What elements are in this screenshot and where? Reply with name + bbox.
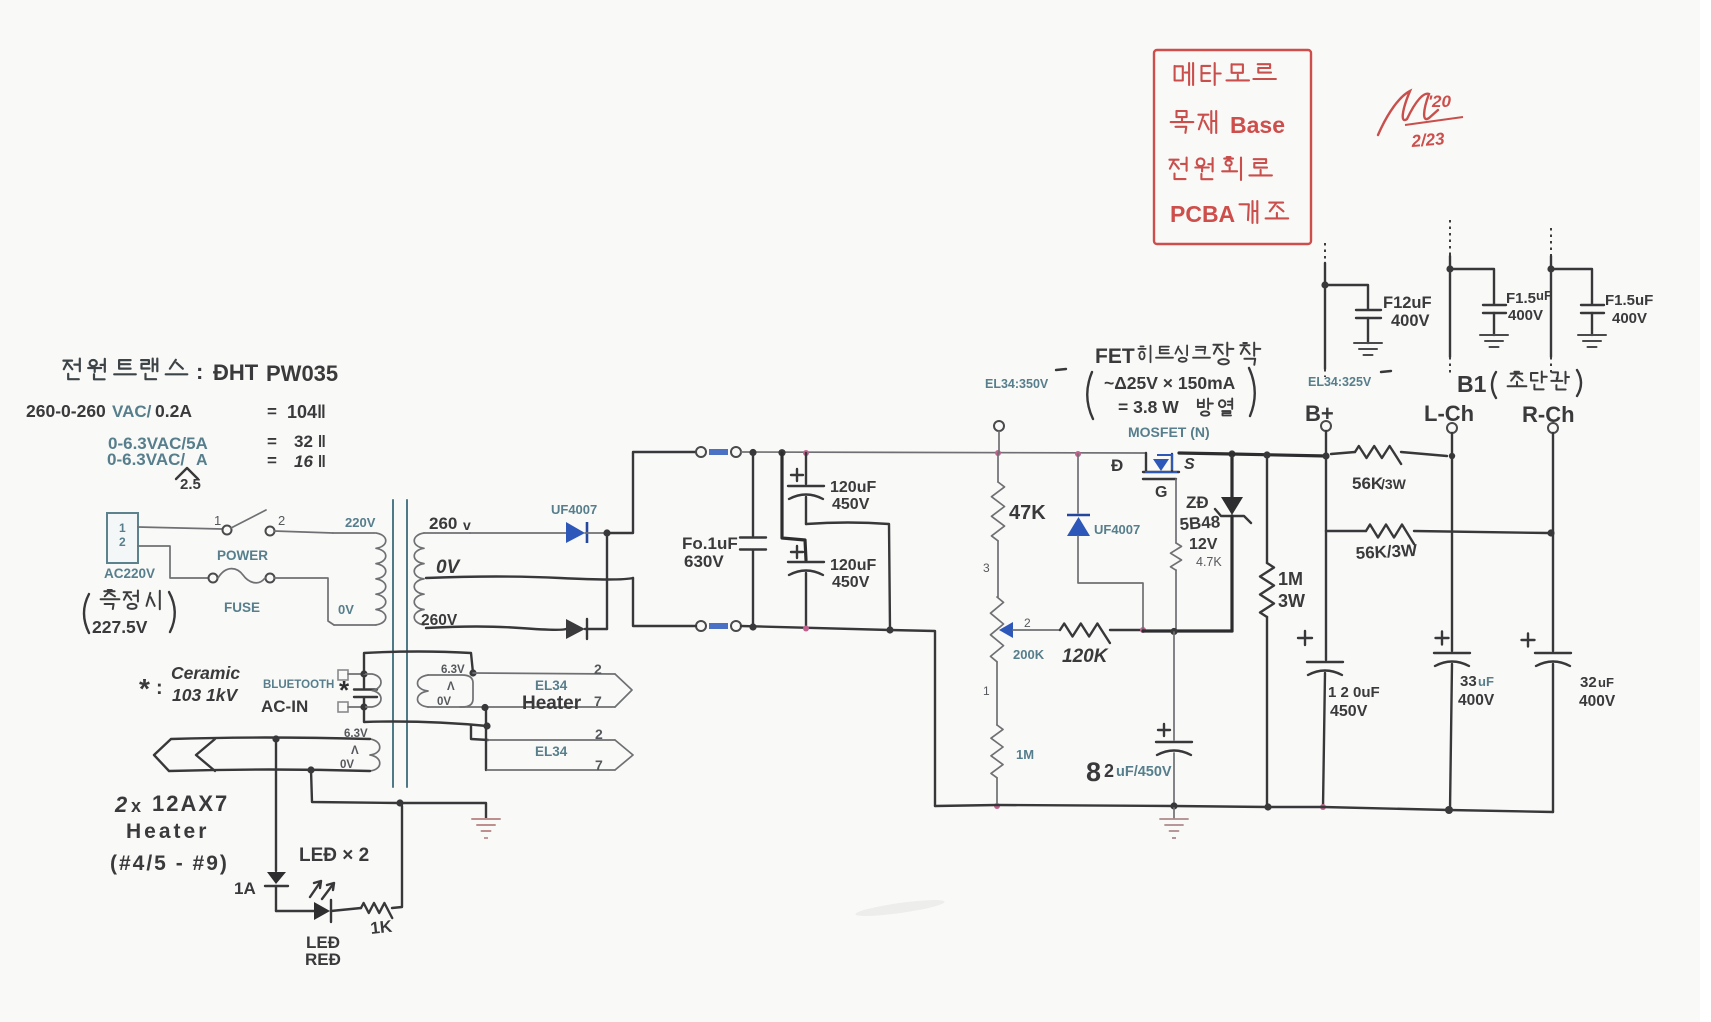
connector top (B+ link) — [696, 447, 706, 457]
svg-text:220V: 220V — [345, 515, 376, 530]
svg-text:1K: 1K — [369, 917, 393, 938]
heater winding 6.3V (12AX7) — [370, 739, 380, 771]
wire top bus connector to MOSFET — [741, 452, 1146, 453]
svg-text:1: 1 — [983, 684, 990, 698]
resistor R6 56K/3W (to L-Ch) — [1331, 452, 1355, 454]
svg-text:2/23: 2/23 — [1410, 129, 1446, 151]
L-Ch rail riser (dotted continuation) — [1449, 220, 1451, 256]
note delta 25V x 150mA — [1087, 372, 1093, 419]
12AX7 heater arrow (double chevron) — [154, 738, 370, 772]
wire bluetooth bottom loop to 0V — [364, 707, 487, 726]
svg-text:4.7K: 4.7K — [1196, 555, 1222, 569]
capacitor C4 120uF 450V — [1325, 531, 1327, 660]
svg-text:16 ‖: 16 ‖ — [294, 452, 326, 471]
svg-text:F1.5: F1.5 — [1506, 290, 1536, 307]
svg-text:=: = — [267, 432, 277, 451]
junction F1.5uF tap R — [1547, 265, 1554, 272]
ground symbol C9 — [1578, 335, 1606, 347]
connector bottom (0V link) — [696, 621, 706, 631]
wire rectifier node to top connector — [607, 452, 696, 533]
red annotation box — [1154, 50, 1311, 244]
red note line 1 (메타모르) — [1175, 63, 1276, 85]
diode D3 UF4007 (gate clamp, blue) — [1077, 454, 1079, 513]
junction bottom bus x753 — [749, 623, 756, 630]
svg-text:EL34: EL34 — [535, 744, 568, 759]
svg-text:120uF: 120uF — [830, 557, 876, 574]
junction top bus x998 (pink) — [995, 450, 1001, 456]
wire B+ down to lower 56K — [1325, 456, 1327, 531]
svg-text:227.5V: 227.5V — [92, 617, 148, 637]
capacitor ceramic 103 (across bluetooth winding) — [363, 674, 365, 688]
svg-text:x: x — [131, 796, 141, 816]
red note line 2 (목재 Base) — [1171, 111, 1217, 133]
svg-text:*: * — [339, 675, 350, 705]
svg-text:F12uF: F12uF — [1383, 294, 1432, 312]
junction heater arrow bottom — [307, 766, 314, 773]
junction bus 1M3W bottom — [1264, 803, 1271, 810]
svg-text:S: S — [1184, 456, 1195, 473]
svg-text:450V: 450V — [832, 496, 870, 513]
svg-text::: : — [196, 359, 203, 384]
wire 0V to EL34 pin7 — [460, 706, 615, 708]
wire 6.3V to EL34 pin2 — [473, 673, 615, 674]
svg-text:2: 2 — [1104, 761, 1114, 781]
svg-text:FET: FET — [1095, 345, 1135, 368]
svg-text:3W: 3W — [1278, 591, 1305, 611]
svg-text:104‖: 104‖ — [287, 402, 326, 422]
svg-text:120K: 120K — [1062, 646, 1109, 667]
wire J1 pin2 to fuse — [138, 546, 208, 578]
bluetooth pickup winding — [364, 674, 381, 707]
junction B+ node — [1322, 452, 1329, 459]
red note line 3 (전원회로) — [1169, 157, 1272, 180]
junction loop node — [483, 722, 490, 729]
junction L-Ch node — [1449, 453, 1455, 459]
svg-text:UF4007: UF4007 — [1094, 522, 1140, 537]
svg-text:56K/3W: 56K/3W — [1355, 541, 1418, 563]
wire 0V to bottom connector — [633, 578, 696, 626]
svg-text:32: 32 — [1580, 674, 1597, 691]
svg-text:= 3.8 W: = 3.8 W — [1118, 397, 1179, 417]
svg-text:AC220V: AC220V — [104, 566, 155, 581]
svg-text:ĐHT: ĐHT — [213, 360, 259, 385]
svg-text:400V: 400V — [1391, 312, 1430, 330]
ground symbol heater (salmon) — [472, 819, 500, 831]
svg-text:EL34:350V: EL34:350V — [985, 377, 1049, 391]
svg-text:REĐ: REĐ — [305, 950, 341, 969]
svg-text:400V: 400V — [1458, 692, 1495, 709]
svg-text:G: G — [1155, 484, 1167, 501]
junction bus 33uF bottom — [1445, 806, 1453, 814]
svg-text:1M: 1M — [1278, 569, 1303, 589]
svg-text:LEĐ × 2: LEĐ × 2 — [299, 845, 369, 866]
svg-text:400V: 400V — [1612, 310, 1647, 327]
capacitor C7 F12uF 400V film — [1325, 285, 1368, 309]
wire heater 0V to ground rail — [311, 770, 399, 803]
svg-text:56K: 56K — [1352, 474, 1384, 493]
junction top bus x806 (pink) — [803, 450, 809, 456]
svg-text::: : — [156, 677, 163, 699]
wire fuse to primary 0V — [274, 578, 334, 625]
MOSFET Q1 (N-channel pass) — [1145, 453, 1147, 471]
ground symbol main (reddish) — [1173, 806, 1175, 818]
svg-text:2: 2 — [278, 513, 285, 528]
capacitor C9 F1.5uF 400V film — [1551, 269, 1592, 304]
junction 1M3W top — [1263, 451, 1270, 458]
svg-text:Heater: Heater — [522, 693, 582, 714]
junction bottom bus x890 — [886, 626, 893, 633]
svg-text:12AX7: 12AX7 — [152, 791, 229, 816]
junction top bus x782 — [778, 449, 785, 456]
junction bottom bus x806 (pink) — [803, 626, 809, 632]
svg-text:0V: 0V — [436, 557, 461, 578]
capacitor C3 82uF/450V — [1173, 632, 1175, 740]
transformer core — [392, 500, 394, 787]
LED light arrows — [310, 881, 334, 899]
svg-text:260-0-260: 260-0-260 — [26, 401, 106, 421]
svg-text:v: v — [463, 517, 471, 533]
svg-text:EL34: EL34 — [535, 678, 568, 693]
svg-text:Fo.1uF: Fo.1uF — [682, 534, 738, 553]
LED red indicator — [314, 902, 330, 920]
junction top bus x1078 (pink) — [1075, 451, 1081, 457]
svg-text:0V: 0V — [437, 696, 451, 708]
wire bluetooth top loop to 6.3V — [364, 652, 473, 674]
bluetooth AC-IN pads — [338, 670, 348, 680]
diode D1 UF4007 (blue) — [566, 522, 585, 543]
svg-text:7: 7 — [595, 757, 603, 773]
capacitor C1 120uF 450V (upper of series pair) — [805, 453, 807, 484]
svg-text:2: 2 — [114, 792, 128, 817]
heater winding 6.3V (EL34) — [418, 675, 429, 707]
junction R-Ch node — [1547, 529, 1554, 536]
red signature scribble — [1378, 91, 1438, 135]
fuse F1 — [209, 574, 218, 583]
wire L-Ch down to 33uF — [1451, 456, 1453, 651]
svg-text:630V: 630V — [684, 552, 724, 571]
svg-text:(#4/5 - #9): (#4/5 - #9) — [110, 852, 229, 875]
svg-text:2: 2 — [1024, 616, 1031, 630]
svg-text:2: 2 — [594, 661, 602, 677]
svg-text:POWER: POWER — [217, 548, 268, 563]
B+ rail riser (dotted continuation) — [1324, 243, 1326, 263]
resistor R2 1M (divider) — [996, 662, 998, 725]
svg-text:400V: 400V — [1579, 693, 1616, 710]
svg-text:0.2A: 0.2A — [155, 401, 192, 421]
svg-text:0-6.3VAC/: 0-6.3VAC/ — [107, 450, 185, 469]
svg-text:/3W: /3W — [1381, 476, 1407, 492]
wire ground rail to ground symbol — [400, 803, 486, 818]
svg-text:2: 2 — [119, 535, 126, 549]
svg-text:8: 8 — [1086, 757, 1101, 787]
transformer spec title (전원트랜스 : DHT PW035) — [63, 359, 187, 380]
potentiometer VR1 200K — [991, 597, 1004, 662]
svg-text:BLUETOOTH: BLUETOOTH — [263, 679, 334, 691]
resistor R1 47K — [997, 453, 999, 482]
svg-text:A: A — [196, 452, 208, 469]
svg-text:3: 3 — [983, 561, 990, 575]
capacitor C5 33uF 400V — [1436, 632, 1449, 645]
diode D2 (lower rectifier) — [566, 619, 585, 639]
junction 0V pin7 — [481, 704, 488, 711]
zener ZD 5B48 12V — [1230, 454, 1233, 497]
R-Ch rail riser (dotted continuation) — [1550, 228, 1552, 256]
svg-text:0V: 0V — [338, 602, 354, 617]
svg-text:12V: 12V — [1189, 536, 1218, 553]
wire D2 cathode up to node — [606, 533, 608, 629]
note measured 227.5V (측정시 227.5V) — [84, 594, 89, 633]
svg-text:*: * — [139, 673, 150, 704]
wire centre tap 0V — [426, 577, 633, 580]
svg-text:2: 2 — [595, 726, 603, 742]
paper smudge — [855, 897, 946, 919]
wire switch to primary 220V — [274, 531, 333, 533]
wire drop to second flag — [485, 708, 487, 770]
svg-text:FUSE: FUSE — [224, 600, 260, 615]
svg-text:450V: 450V — [1330, 703, 1368, 720]
svg-text:Đ: Đ — [1111, 456, 1123, 475]
switch S1 POWER — [223, 526, 232, 535]
wire gate node to zener (thick) — [1143, 629, 1232, 632]
wire HV bottom to diode D2 — [426, 627, 566, 630]
EL34 heater flag 1 — [615, 674, 632, 707]
svg-text:F1.5uF: F1.5uF — [1605, 292, 1653, 309]
wire 6.3V down to 1A diode — [275, 739, 277, 871]
wire bottom bus connector to corner — [741, 626, 935, 806]
svg-text:B1: B1 — [1457, 371, 1487, 397]
AC input connector J1 — [107, 513, 138, 563]
svg-text:7: 7 — [594, 693, 602, 709]
svg-text:200K: 200K — [1013, 647, 1045, 662]
svg-text:Heater: Heater — [126, 820, 209, 843]
svg-text:Λ: Λ — [351, 745, 359, 757]
resistor R5 1M 3W — [1266, 455, 1268, 563]
resistor R7 56K/3W (to R-Ch) — [1326, 530, 1366, 532]
junction bluetooth top — [360, 670, 367, 677]
svg-text:UF4007: UF4007 — [551, 502, 597, 517]
svg-text:120uF: 120uF — [830, 479, 876, 496]
junction bluetooth bottom — [360, 703, 367, 710]
resistor R4 4.7K (gate) — [1175, 479, 1177, 543]
junction 6.3V top — [469, 669, 476, 676]
junction 4.7K bottom — [1170, 628, 1177, 635]
EL34 heater flag 2 — [488, 739, 615, 741]
junction heater arrow top — [272, 735, 279, 742]
svg-text:R-Ch: R-Ch — [1522, 402, 1575, 427]
svg-text:32 ‖: 32 ‖ — [294, 432, 326, 451]
svg-text:~Δ25V × 150mA: ~Δ25V × 150mA — [1104, 373, 1236, 393]
wire R-Ch down to 32uF — [1552, 533, 1554, 651]
capacitor F0.1uF 630V film — [752, 452, 754, 536]
svg-text:uF/450V: uF/450V — [1116, 764, 1172, 780]
transformer T1 HV secondary winding — [414, 533, 424, 625]
svg-text:260: 260 — [429, 514, 457, 533]
resistor R3 120K — [1060, 624, 1110, 644]
resistor R8 1K — [331, 908, 361, 911]
svg-text:ZĐ: ZĐ — [1186, 493, 1209, 512]
junction C4 bottom (pink) — [1320, 804, 1326, 810]
svg-text:103 1kV: 103 1kV — [172, 685, 239, 705]
svg-text:PW035: PW035 — [266, 361, 338, 386]
capacitor C8 F1.5uF 400V film — [1450, 269, 1494, 304]
diode 1A — [267, 872, 286, 884]
svg-text:L-Ch: L-Ch — [1424, 401, 1474, 426]
wire HV top to diode D1 — [470, 532, 566, 534]
junction 82uF bottom — [1170, 802, 1177, 809]
wire diode to LED — [276, 910, 314, 912]
junction rectifier output — [603, 529, 610, 536]
junction 1M bottom (pink) — [994, 803, 1000, 809]
svg-text:Λ: Λ — [447, 681, 455, 693]
junction F1.5uF tap L — [1446, 265, 1453, 272]
svg-text:VAC/: VAC/ — [112, 402, 152, 421]
svg-text:1M: 1M — [1016, 747, 1034, 762]
svg-text:uF: uF — [1598, 675, 1614, 690]
junction top bus x753 — [749, 449, 756, 456]
ground symbol C7 — [1354, 343, 1382, 355]
junction F12uF tap — [1321, 281, 1328, 288]
ground symbol C8 — [1480, 335, 1508, 347]
junction gate node (pink) — [1140, 627, 1146, 633]
wire J1 pin1 to switch — [138, 527, 222, 529]
svg-text:AC-IN: AC-IN — [261, 697, 308, 716]
svg-text:=: = — [267, 402, 277, 421]
svg-text:uF: uF — [1478, 674, 1494, 689]
capacitor C2 120uF 450V (lower of series pair) — [782, 453, 806, 560]
svg-text:1A: 1A — [234, 879, 256, 898]
svg-text:PCBA: PCBA — [1170, 201, 1235, 227]
svg-text:MOSFET (N): MOSFET (N) — [1128, 424, 1210, 440]
svg-text:33: 33 — [1460, 673, 1477, 690]
svg-text:1: 1 — [214, 513, 221, 528]
svg-text:Ceramic: Ceramic — [171, 663, 240, 683]
svg-text:'20: '20 — [1428, 92, 1451, 111]
bottom ground bus — [935, 805, 1553, 812]
capacitor C6 32uF 400V — [1522, 634, 1535, 647]
svg-text:1 2 0uF: 1 2 0uF — [1328, 684, 1380, 701]
svg-text:6.3V: 6.3V — [441, 664, 465, 676]
svg-text:400V: 400V — [1508, 307, 1543, 324]
svg-text:EL34:325V: EL34:325V — [1308, 375, 1372, 389]
svg-text:=: = — [267, 451, 277, 470]
svg-text:47K: 47K — [1009, 502, 1046, 524]
svg-text:450V: 450V — [832, 574, 870, 591]
svg-text:1: 1 — [119, 521, 126, 535]
svg-text:2.5: 2.5 — [180, 476, 201, 493]
junction ground rail — [396, 799, 403, 806]
junction zener top on bus — [1228, 450, 1235, 457]
svg-text:uF: uF — [1536, 288, 1552, 303]
svg-text:Base: Base — [1230, 112, 1285, 138]
wire S to B+ terminal bus — [1179, 453, 1326, 456]
transformer T1 primary winding — [333, 532, 375, 534]
svg-text:5B48: 5B48 — [1179, 512, 1221, 534]
